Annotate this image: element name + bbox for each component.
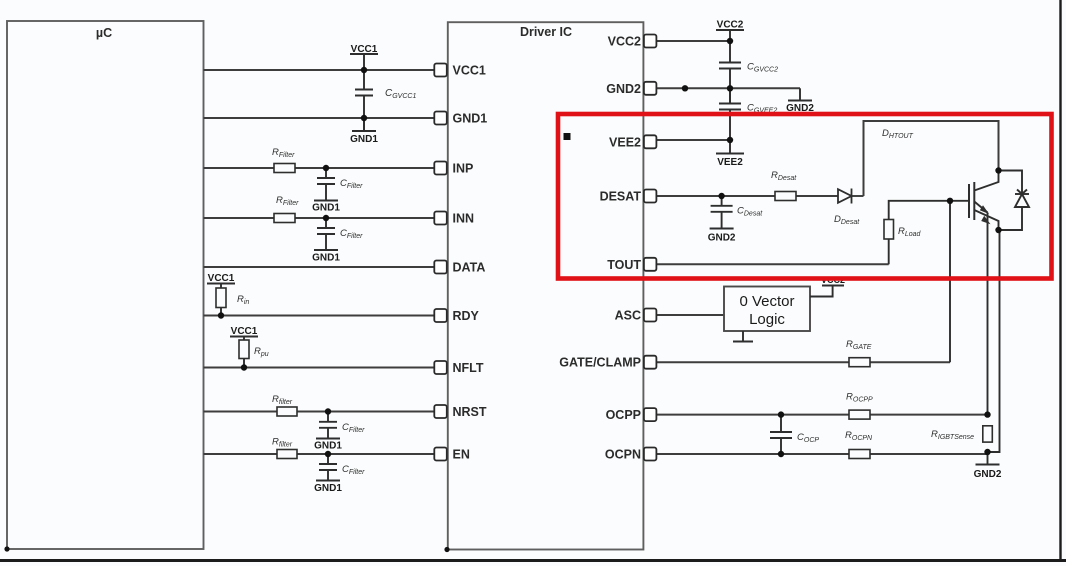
svg-text:0 Vector: 0 Vector: [739, 293, 794, 310]
svg-text:NRST: NRST: [453, 405, 487, 419]
svg-text:EN: EN: [453, 448, 470, 462]
svg-text:µC: µC: [96, 26, 112, 40]
svg-text:VCC2: VCC2: [717, 20, 744, 31]
svg-text:GND1: GND1: [314, 441, 342, 452]
svg-text:VCC1: VCC1: [208, 273, 235, 284]
svg-text:INN: INN: [453, 212, 475, 226]
svg-text:VCC1: VCC1: [351, 44, 378, 55]
svg-text:VEE2: VEE2: [609, 135, 641, 149]
svg-text:VEE2: VEE2: [717, 157, 743, 168]
svg-text:RDY: RDY: [453, 309, 480, 323]
svg-text:DESAT: DESAT: [600, 190, 642, 204]
svg-text:OCPP: OCPP: [606, 408, 641, 422]
svg-text:GND1: GND1: [312, 253, 340, 264]
svg-text:GATE/CLAMP: GATE/CLAMP: [559, 356, 641, 370]
svg-text:TOUT: TOUT: [607, 258, 641, 272]
svg-text:GND1: GND1: [350, 134, 378, 145]
svg-text:GND1: GND1: [453, 112, 488, 126]
svg-text:Driver IC: Driver IC: [520, 25, 572, 39]
svg-text:GND2: GND2: [974, 469, 1002, 480]
svg-text:VCC1: VCC1: [453, 64, 486, 78]
svg-text:GND2: GND2: [606, 82, 641, 96]
svg-text:INP: INP: [453, 162, 474, 176]
svg-text:VCC1: VCC1: [231, 326, 258, 337]
svg-text:OCPN: OCPN: [605, 448, 641, 462]
svg-text:Logic: Logic: [749, 311, 785, 328]
svg-text:GND1: GND1: [312, 203, 340, 214]
svg-text:ASC: ASC: [615, 309, 641, 323]
svg-text:VCC2: VCC2: [608, 35, 641, 49]
svg-text:NFLT: NFLT: [453, 361, 484, 375]
svg-text:GND2: GND2: [708, 233, 736, 244]
svg-text:GND1: GND1: [314, 483, 342, 494]
svg-text:DATA: DATA: [453, 261, 486, 275]
